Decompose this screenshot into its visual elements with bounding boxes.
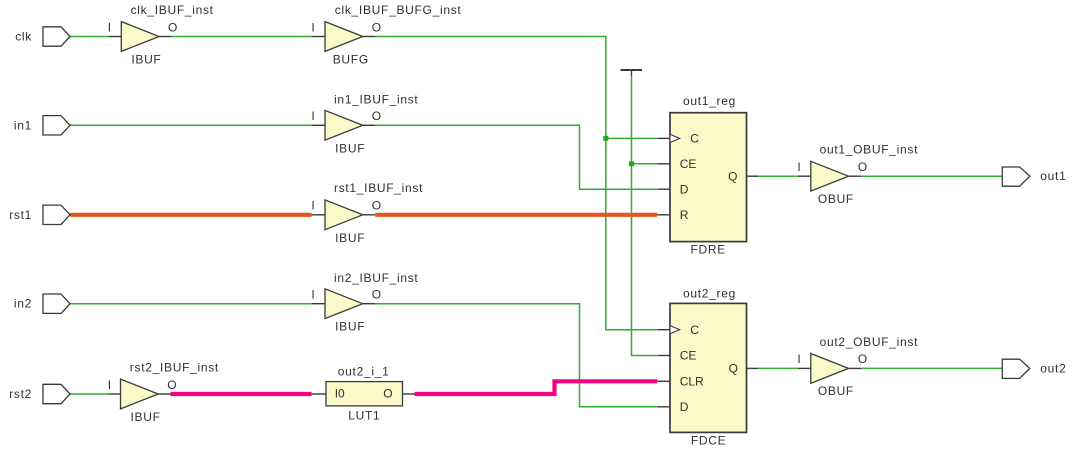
svg-text:Q: Q — [728, 169, 737, 183]
output port out1 — [1002, 167, 1066, 186]
input port in2 — [14, 294, 70, 313]
svg-text:O: O — [168, 20, 177, 34]
svg-text:D: D — [680, 182, 689, 196]
svg-text:IBUF: IBUF — [335, 320, 365, 334]
wire in2_IBUF net: to FDCE D — [375, 304, 658, 407]
wire in1_IBUF net: to FDRE D — [375, 125, 658, 189]
svg-text:in1: in1 — [14, 118, 32, 132]
buffer in2_IBUF_inst — [311, 271, 418, 334]
svg-text:out1: out1 — [1040, 169, 1066, 183]
wire in2 net: port to IBUF — [70, 303, 312, 305]
svg-text:clk_IBUF_inst: clk_IBUF_inst — [131, 3, 214, 17]
svg-text:FDRE: FDRE — [690, 243, 725, 257]
svg-text:D: D — [680, 400, 689, 414]
wire const1 net: T stub down to FDRE CE and FDCE CE — [632, 75, 659, 356]
svg-text:in1_IBUF_inst: in1_IBUF_inst — [334, 93, 418, 107]
input port clk — [15, 27, 70, 46]
svg-text:Q: Q — [729, 362, 738, 376]
svg-text:O: O — [858, 352, 867, 366]
svg-text:CE: CE — [680, 349, 697, 363]
flipflop out2_reg FDCE — [657, 287, 758, 448]
svg-text:O: O — [372, 288, 381, 302]
svg-text:out2_reg: out2_reg — [683, 287, 736, 301]
wire rst2_IBUF net: IBUF to LUT1 (magenta) — [171, 392, 312, 396]
input port rst2 — [9, 384, 70, 403]
svg-text:rst2: rst2 — [9, 387, 32, 401]
lut out2_i_1 LUT1 — [312, 364, 415, 422]
svg-text:I: I — [311, 288, 314, 302]
wire out1 OBUF to port — [861, 175, 1002, 177]
svg-text:I: I — [311, 199, 314, 213]
svg-text:I: I — [797, 352, 800, 366]
svg-text:rst1: rst1 — [9, 208, 32, 222]
svg-text:out2: out2 — [1040, 361, 1066, 375]
svg-text:O: O — [167, 378, 176, 392]
wire in1 net: port to IBUF — [70, 124, 312, 126]
svg-text:R: R — [680, 208, 689, 222]
svg-text:I0: I0 — [335, 387, 345, 401]
svg-text:OBUF: OBUF — [818, 192, 854, 206]
flipflop out1_reg FDRE — [657, 94, 758, 256]
wire out2 OBUF to port — [861, 367, 1002, 369]
input port rst1 — [9, 205, 70, 224]
svg-text:rst2_IBUF_inst: rst2_IBUF_inst — [130, 361, 219, 375]
junction clk_IBUF_BUFG at FDRE C — [603, 136, 608, 141]
node const1 T-bar — [621, 70, 643, 76]
svg-text:I: I — [108, 20, 111, 34]
wire out1 net: FDRE Q to OBUF — [758, 175, 798, 177]
svg-text:C: C — [690, 132, 699, 146]
svg-text:clk_IBUF_BUFG_inst: clk_IBUF_BUFG_inst — [335, 3, 462, 17]
svg-text:I: I — [311, 20, 314, 34]
svg-text:O: O — [383, 387, 392, 401]
buffer out2_OBUF_inst — [797, 335, 918, 398]
svg-text:I: I — [108, 378, 111, 392]
svg-text:clk: clk — [15, 30, 32, 44]
buffer in1_IBUF_inst — [311, 93, 418, 156]
svg-text:LUT1: LUT1 — [348, 409, 380, 423]
buffer out1_OBUF_inst — [797, 143, 918, 206]
svg-text:C: C — [690, 323, 699, 337]
svg-text:IBUF: IBUF — [335, 231, 365, 245]
buffer clk_IBUF_BUFG_inst — [311, 3, 461, 67]
svg-text:rst1_IBUF_inst: rst1_IBUF_inst — [334, 181, 423, 195]
svg-text:OBUF: OBUF — [818, 384, 854, 398]
wire clk_IBUF net: IBUF to BUFG — [172, 36, 312, 38]
svg-text:O: O — [372, 109, 381, 123]
svg-text:in2: in2 — [14, 297, 32, 311]
svg-text:IBUF: IBUF — [335, 141, 365, 155]
wire rst1_IBUF net: IBUF to FDRE R (orange) — [375, 213, 657, 217]
wire rst1 net: port to IBUF (orange) — [70, 213, 312, 217]
svg-text:I: I — [797, 160, 800, 174]
wire rst2 net: port to IBUF — [70, 393, 109, 395]
svg-text:out2_i_1: out2_i_1 — [338, 364, 390, 378]
svg-text:out1_OBUF_inst: out1_OBUF_inst — [820, 143, 919, 157]
junction const1 at FDRE CE — [629, 161, 634, 166]
svg-text:CLR: CLR — [680, 375, 704, 389]
wire out2_i_1 net: LUT1 to FDCE CLR (magenta) — [415, 381, 658, 394]
svg-text:O: O — [372, 20, 381, 34]
svg-text:out1_reg: out1_reg — [683, 94, 736, 108]
output port out2 — [1002, 359, 1066, 378]
buffer clk_IBUF_inst — [108, 3, 214, 67]
svg-text:IBUF: IBUF — [131, 410, 161, 424]
wire clk net: port to IBUF — [70, 36, 109, 38]
buffer rst1_IBUF_inst — [311, 181, 423, 245]
buffer rst2_IBUF_inst — [108, 361, 219, 425]
svg-text:O: O — [372, 199, 381, 213]
wire out2 net: FDCE Q to OBUF — [758, 367, 798, 369]
svg-text:BUFG: BUFG — [333, 53, 369, 67]
svg-text:I: I — [311, 109, 314, 123]
svg-text:CE: CE — [680, 157, 697, 171]
input port in1 — [14, 116, 70, 135]
svg-text:out2_OBUF_inst: out2_OBUF_inst — [820, 335, 919, 349]
wire clk_IBUF_BUFG net: BUFG out, down, to FDRE C and FDCE C — [375, 37, 658, 330]
svg-text:IBUF: IBUF — [131, 53, 161, 67]
svg-text:FDCE: FDCE — [691, 434, 726, 448]
svg-text:O: O — [858, 160, 867, 174]
svg-text:in2_IBUF_inst: in2_IBUF_inst — [334, 271, 418, 285]
